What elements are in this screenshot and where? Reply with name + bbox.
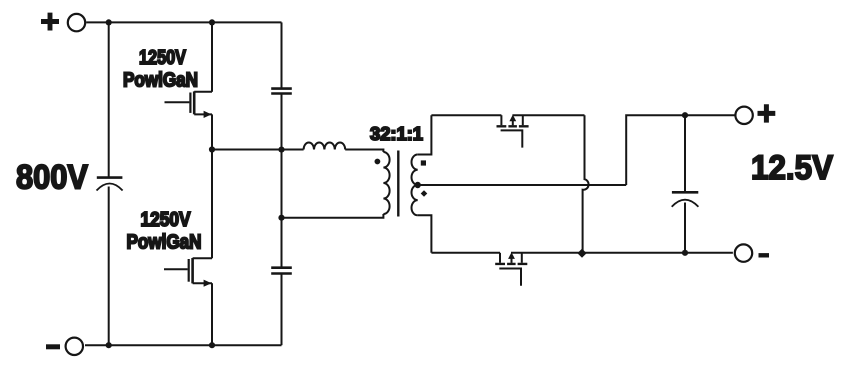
wire bottom rail <box>85 344 282 346</box>
output terminal - circle <box>735 244 752 261</box>
node dot cap branch transformer return <box>278 215 284 221</box>
input terminal + circle <box>68 14 85 31</box>
wire primary bottom return <box>282 214 384 218</box>
node dot top rail left <box>106 19 112 25</box>
plus sign input <box>41 13 59 31</box>
wire FET branch vertical top <box>211 22 213 91</box>
wire input vertical lower <box>108 187 110 346</box>
node dot output plus rail <box>682 112 688 118</box>
node dot top rail at FET branch <box>209 19 215 25</box>
transformer primary winding <box>383 152 389 214</box>
capacitor input 800V <box>97 176 123 179</box>
capacitor C1 upper <box>271 89 292 94</box>
minus sign input <box>46 344 60 349</box>
transistor Q1 upper primary GaN <box>165 91 213 118</box>
wire output cap vertical top <box>684 115 686 192</box>
wire inductor to transformer <box>345 150 383 153</box>
wire bottom secondary rail left <box>431 252 500 254</box>
wire input vertical upper <box>108 22 110 177</box>
svg-text:1250V: 1250V <box>139 47 187 69</box>
wire secondary top rail right <box>512 114 584 116</box>
node dot cap branch mid <box>278 147 284 153</box>
svg-text:800V: 800V <box>16 159 88 197</box>
node dot bottom rail at FET branch <box>209 342 215 348</box>
node dot bottom rail left <box>106 342 112 348</box>
junction diamond lower rail <box>577 249 586 258</box>
wire secondary top lead <box>418 115 432 154</box>
svg-text:32:1:1: 32:1:1 <box>370 123 423 144</box>
svg-text:1250V: 1250V <box>141 209 192 231</box>
input terminal - circle <box>66 338 83 355</box>
wire top rail <box>86 21 281 23</box>
wire bottom secondary rail right <box>511 252 733 254</box>
svg-text:PowiGaN: PowiGaN <box>127 232 202 254</box>
node dot center tap <box>415 182 421 188</box>
wire vertical with hop over center tap <box>583 115 589 253</box>
wire FET branch vertical bottom <box>211 283 213 345</box>
transformer core <box>397 151 399 217</box>
plus sign output <box>758 104 776 122</box>
wire secondary bottom lead <box>418 215 432 253</box>
wire output cap vertical bottom <box>684 203 686 253</box>
wire center tap <box>418 184 627 186</box>
transistor Q2 lower primary GaN <box>164 258 212 287</box>
capacitor C2 lower <box>271 268 292 274</box>
transformer secondary winding <box>412 155 418 216</box>
primary phase dot <box>375 159 381 165</box>
output terminal + circle <box>735 107 752 124</box>
wire capacitor branch vertical middle <box>281 94 283 267</box>
transistor Q4 lower sync rect <box>495 252 527 286</box>
transistor Q3 upper sync rect <box>497 115 529 148</box>
capacitor output <box>672 191 698 194</box>
wire capacitor branch vertical top <box>281 22 283 88</box>
svg-text:PowiGaN: PowiGaN <box>123 70 198 92</box>
wire secondary top rail left <box>431 114 501 116</box>
wire FET branch vertical middle <box>211 114 213 258</box>
wire capacitor branch vertical bottom <box>281 274 283 345</box>
minus sign output <box>759 253 770 257</box>
svg-text:12.5V: 12.5V <box>751 149 833 187</box>
node dot mid FET branch <box>209 146 215 152</box>
wire output plus riser <box>626 115 734 185</box>
node dot output minus rail <box>682 250 688 256</box>
secondary phase dot lower diamond <box>421 190 428 197</box>
wire mid node to inductor <box>212 149 304 151</box>
inductor resonant <box>304 143 346 150</box>
secondary phase dot upper <box>421 160 426 165</box>
